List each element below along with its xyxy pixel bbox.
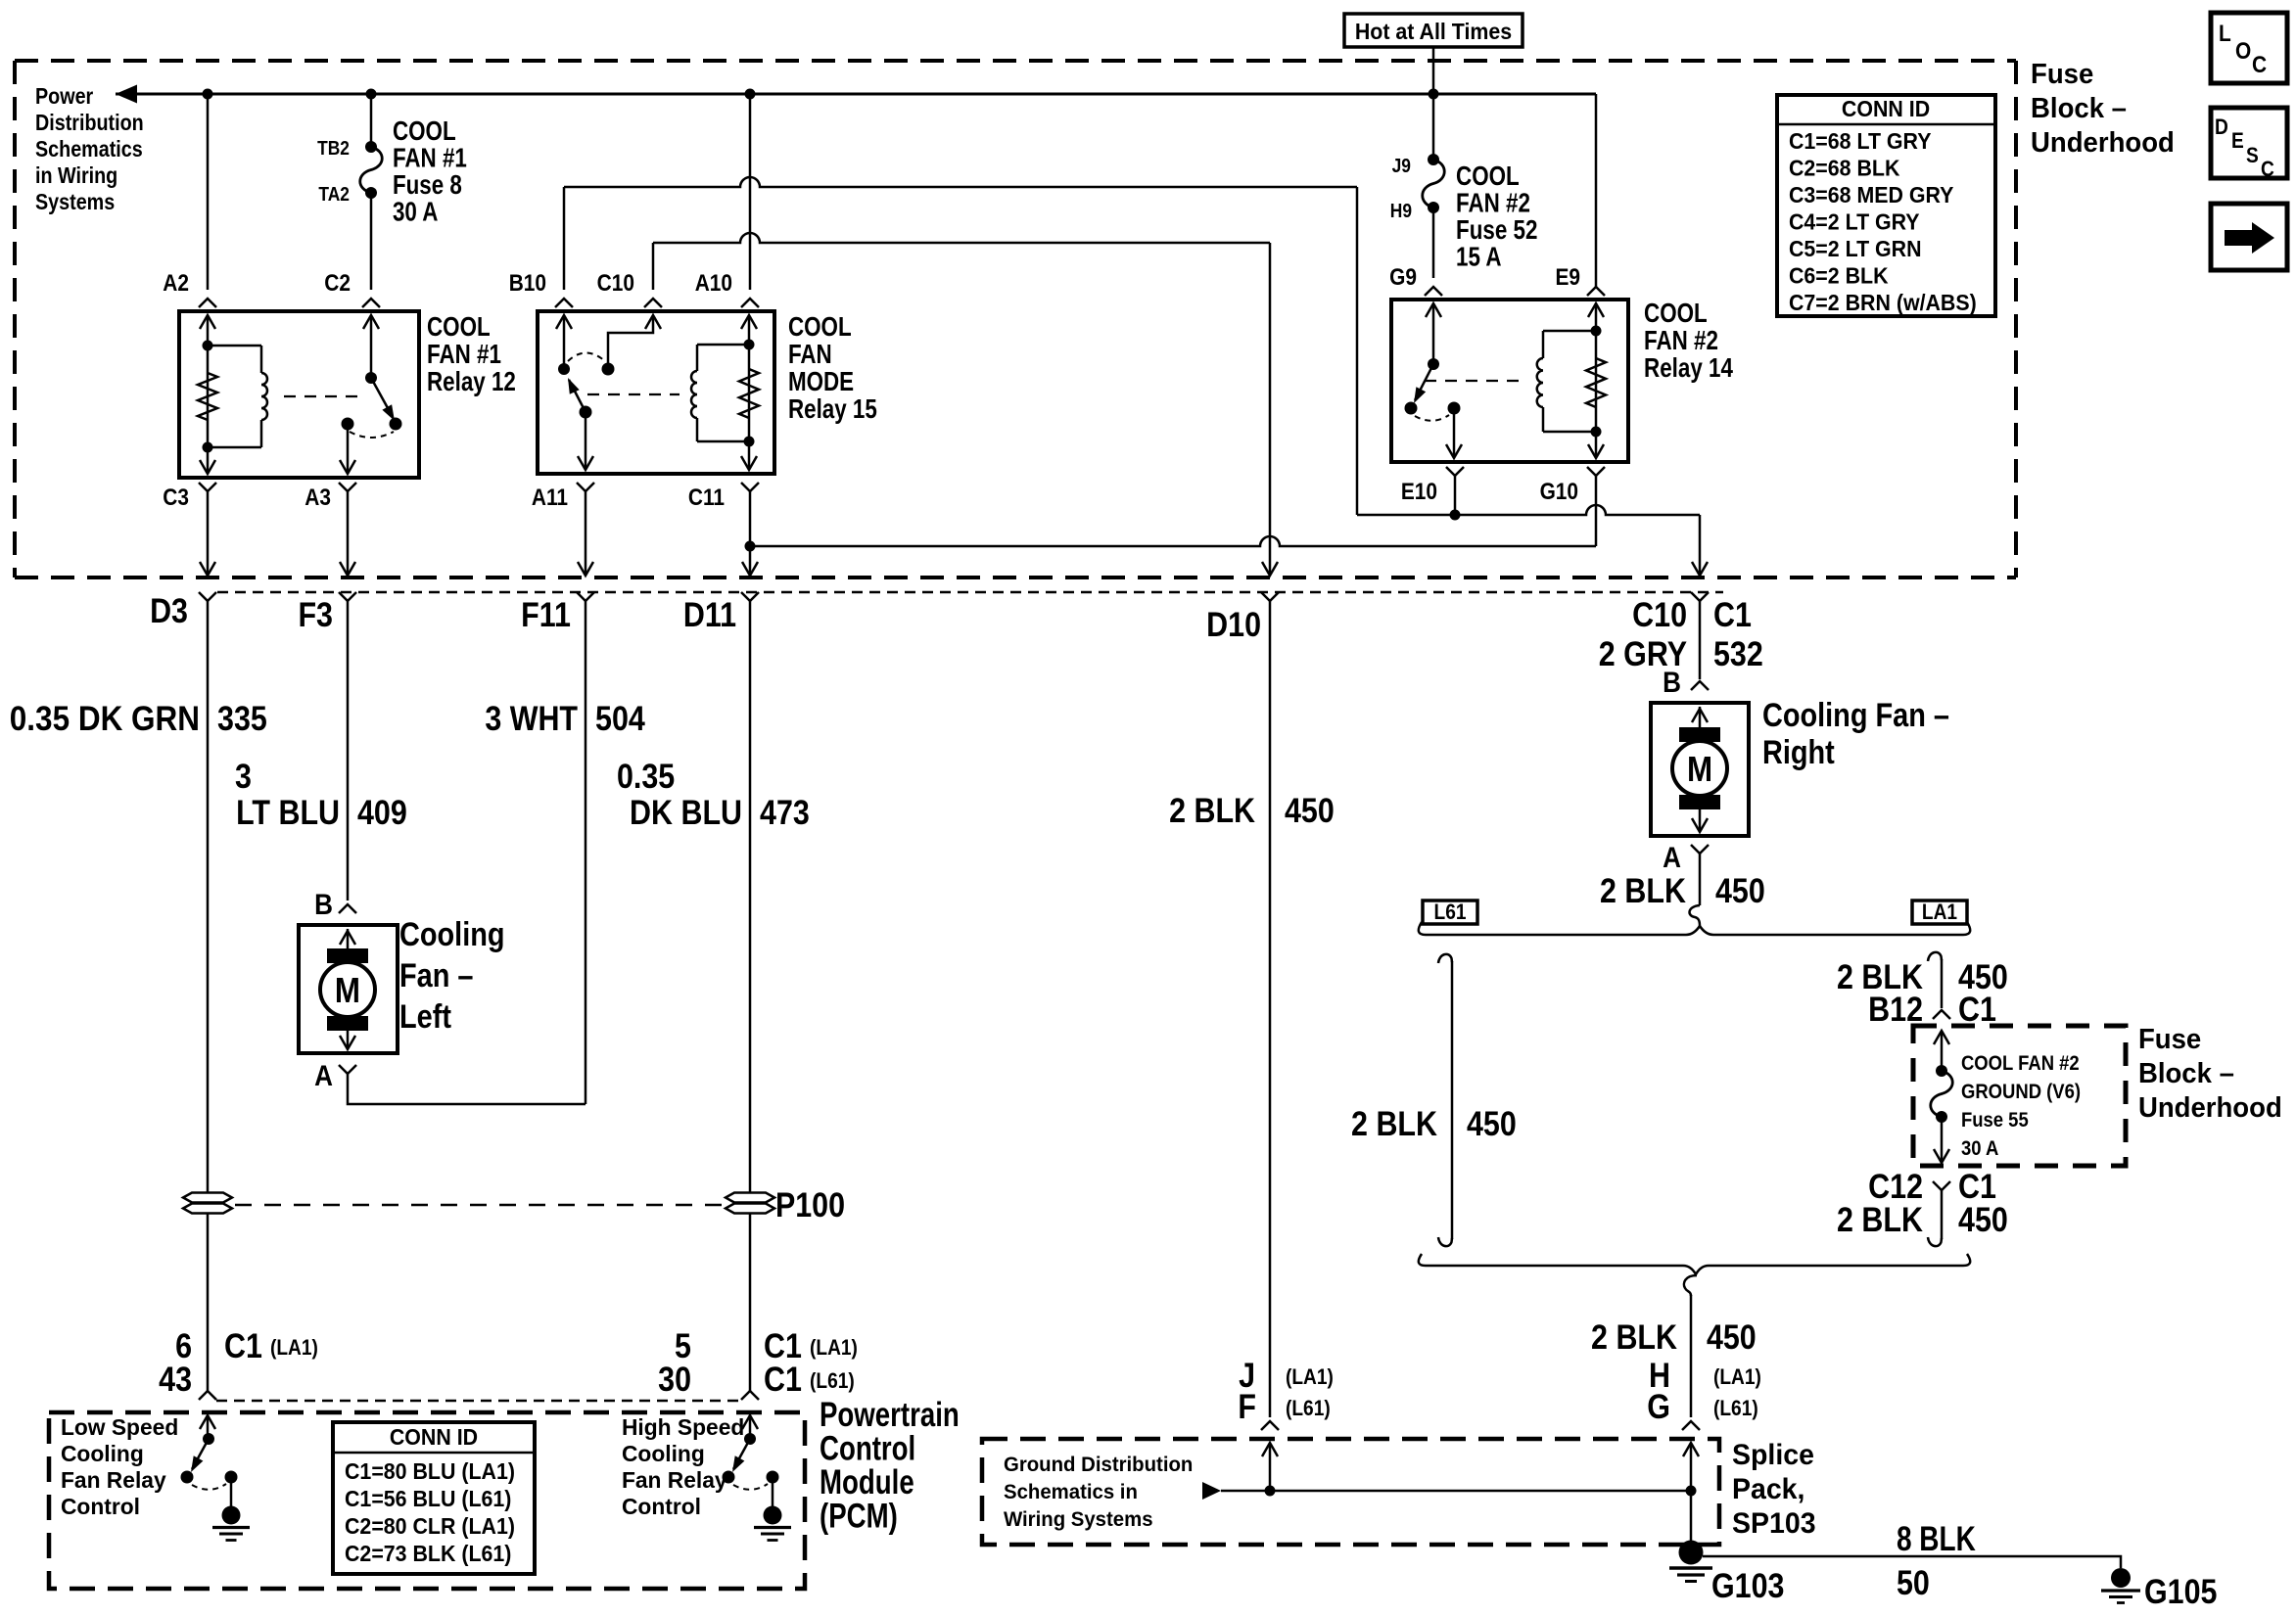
svg-text:C2: C2 [324,270,351,297]
pin A11 connector [577,483,594,491]
arrow glyph (next page) [2225,230,2252,246]
svg-text:TB2: TB2 [317,137,350,159]
pin E9 connector [1587,287,1605,296]
svg-text:F11: F11 [521,595,571,633]
svg-text:E: E [2231,129,2244,154]
svg-text:30 A: 30 A [393,197,438,227]
svg-text:Control: Control [622,1494,701,1519]
svg-text:Low Speed: Low Speed [61,1414,178,1440]
relay K15 C10 jog wire [608,315,653,369]
pin B12 connector [1933,1010,1950,1019]
wire: power bus corner down to E9 [1595,94,1598,287]
svg-text:Distribution: Distribution [35,109,144,135]
svg-text:Fuse 8: Fuse 8 [393,170,462,201]
svg-text:in Wiring: in Wiring [35,162,117,188]
wire: fuse52 feed [1432,94,1435,160]
junction C11/D11 tee [745,541,756,552]
svg-text:Splice: Splice [1732,1439,1814,1471]
relay K15 junction bottom [744,437,755,447]
svg-text:B: B [1663,666,1681,698]
svg-text:C3: C3 [163,485,189,511]
PCM CONN ID box [333,1422,535,1574]
relay K12 junction top [203,341,213,351]
pin F11 connector [577,592,594,601]
svg-text:A10: A10 [695,270,732,297]
svg-text:450: 450 [1467,1104,1517,1142]
svg-text:COOL: COOL [427,312,491,343]
svg-text:30: 30 [658,1360,691,1398]
svg-text:G: G [1647,1387,1670,1425]
svg-text:450: 450 [1958,1200,2008,1238]
svg-text:J9: J9 [1392,155,1411,176]
svg-text:3: 3 [235,757,252,795]
wire B10 riser [563,187,566,290]
svg-text:(L61): (L61) [1286,1397,1331,1421]
svg-text:Relay 14: Relay 14 [1644,353,1733,384]
svg-text:FAN #2: FAN #2 [1644,326,1718,356]
svg-text:(L61): (L61) [810,1369,855,1394]
relay K12 control dashed link [284,395,360,397]
pin H/G connector [1682,1421,1700,1430]
svg-text:L61: L61 [1434,901,1467,925]
LOC reference box [2211,13,2287,83]
motor M1 circle (Cooling Fan - Left) [320,962,375,1017]
motor M2 circle (Cooling Fan - Right) [1672,741,1727,796]
wire 473 below P100 [749,1214,752,1391]
svg-text:GROUND (V6): GROUND (V6) [1961,1081,2081,1103]
svg-text:A11: A11 [532,485,568,511]
relay K12 coil pin line w/ arrows [207,315,210,474]
svg-text:532: 532 [1713,634,1763,672]
resistor inside K15 [739,369,759,418]
svg-text:(PCM): (PCM) [820,1496,898,1535]
relay K15 box (COOL FAN MODE Relay 15) [538,311,774,474]
svg-text:FAN #1: FAN #1 [427,340,501,370]
svg-text:2 BLK: 2 BLK [1591,1317,1677,1356]
svg-text:A: A [1663,841,1681,873]
svg-text:Cooling Fan –: Cooling Fan – [1762,696,1949,734]
arrow C1 feed into connector [1692,562,1708,576]
svg-text:Cooling: Cooling [61,1441,144,1466]
svg-text:2 BLK: 2 BLK [1351,1104,1437,1142]
pin C10/C1 connector (right fan feed) [1691,592,1709,601]
pin F3 connector [339,592,356,601]
svg-text:Fuse: Fuse [2138,1022,2201,1054]
pin A10 connector [741,299,759,307]
svg-text:C10: C10 [1632,595,1687,633]
svg-text:G103: G103 [1711,1566,1784,1604]
coil inside K14 [1543,330,1596,333]
relay K14 switch common from G9 [1432,303,1435,364]
pin 30 connector [741,1391,759,1400]
wire C1 feed drop [1699,515,1702,574]
low speed dashed throw arc [192,1484,226,1490]
svg-text:Right: Right [1762,733,1835,771]
svg-text:A3: A3 [305,485,331,511]
dashed link between P100 halves [235,1204,723,1207]
svg-text:30 A: 30 A [1961,1137,1998,1160]
svg-text:Underhood: Underhood [2031,125,2175,158]
wire LA1 branch to B12 [1941,959,1944,1008]
relay K14 output to E10 [1453,408,1456,458]
svg-text:COOL: COOL [788,312,852,343]
svg-text:CONN ID: CONN ID [1842,96,1930,121]
svg-text:50: 50 [1897,1563,1930,1601]
pin A3 connector [339,483,356,491]
relay K15 coil pin line w/ arrows [748,315,751,470]
wire: fuse8 to C2 pin [370,193,373,290]
wire 50 8BLK to G105 [1703,1556,2121,1568]
relay K14 control dashed link [1425,380,1523,382]
pin E10 connector [1446,467,1464,476]
pin A2 connector [199,299,216,307]
svg-text:Fan –: Fan – [399,956,473,994]
pin C10 connector [644,299,662,307]
svg-text:Wiring Systems: Wiring Systems [1004,1508,1153,1531]
wire A10 column from power bus [749,94,752,290]
svg-text:C: C [2261,158,2274,182]
label box L61 [1423,901,1477,924]
LA1 branch bottom hook [1928,1237,1942,1246]
svg-text:Fan Relay: Fan Relay [622,1467,727,1493]
LA1 branch top hook [1928,952,1942,961]
arrow D3 into connector [207,491,210,574]
svg-text:473: 473 [760,793,810,831]
relay K14 stationary contact [1448,402,1461,415]
high speed stationary contact [767,1471,779,1484]
fuse55 entry arrow [1941,1031,1944,1071]
wire bus from B10 route to C1 (hop at G10) [1357,505,1700,515]
inline connector P100 (D3 wire) [183,1193,232,1203]
splice SP103 node [1679,1541,1704,1565]
L61 branch top hook [1438,954,1452,963]
svg-text:A2: A2 [163,270,189,297]
pin D10 connector [1261,592,1279,601]
high speed ground lead [772,1477,774,1507]
svg-text:CONN ID: CONN ID [390,1424,478,1450]
svg-text:Power: Power [35,82,94,109]
svg-text:D11: D11 [683,595,736,633]
svg-text:Schematics: Schematics [35,135,143,162]
svg-text:M: M [1687,750,1712,790]
svg-text:Relay 15: Relay 15 [788,394,877,425]
relay K15 dashed throw arc [568,353,605,362]
svg-text:3 WHT: 3 WHT [485,699,578,737]
fuse F52 (COOL FAN #2 Fuse 52 15A) [1428,154,1439,165]
svg-text:(LA1): (LA1) [1713,1365,1761,1390]
relay K14 box (COOL FAN #2 Relay 14) [1391,300,1628,462]
relay K12 switch pivot [365,372,377,384]
wire C10 riser [652,243,655,290]
low speed input arrow [207,1415,210,1439]
svg-text:15 A: 15 A [1456,242,1501,272]
svg-text:Block –: Block – [2031,91,2127,123]
svg-text:C1: C1 [224,1326,262,1364]
wire: main power bus [116,93,1596,96]
svg-text:Fuse 52: Fuse 52 [1456,215,1537,246]
svg-text:43: 43 [159,1360,192,1398]
svg-text:F3: F3 [298,595,333,633]
svg-text:A: A [314,1059,333,1091]
relay K15 switch pivot [558,363,570,375]
svg-text:B12: B12 [1868,990,1923,1028]
pin 43 connector [199,1391,216,1400]
svg-text:LA1: LA1 [1922,901,1957,925]
pin B10 connector [555,299,573,307]
relay K14 dashed throw arc [1415,415,1449,421]
relay K15 switch common from B10 [563,315,566,369]
svg-text:L: L [2219,21,2231,47]
ground G103 symbol [1669,1566,1712,1570]
ground (high speed, PCM internal) [764,1506,782,1525]
relay K15 moving contact [580,406,592,419]
svg-text:TA2: TA2 [318,183,350,205]
svg-text:C3=68 MED GRY: C3=68 MED GRY [1789,182,1954,208]
relay K12 switch arm [371,378,393,417]
wire 473 DK BLU (D11 to P100) [749,601,752,1192]
pin D11 connector [741,592,759,601]
connector face dashed line (fuse block bottom) [217,591,1723,594]
pin B connector (left fan) [339,904,356,913]
wire bus C11 to G10 (hop at D10) [750,536,1596,546]
wire 450 BLK (D10 to PCM J/F) [1269,601,1272,1417]
inline connector P100 (D11 wire) [726,1193,774,1203]
ground (low speed, PCM internal) [222,1506,241,1525]
svg-text:G105: G105 [2144,1572,2217,1610]
svg-text:409: 409 [357,793,407,831]
cooling fan left feed line [347,929,350,1049]
svg-text:Schematics in: Schematics in [1004,1481,1138,1503]
svg-text:G9: G9 [1389,264,1417,291]
pin B connector (right fan) [1691,681,1709,690]
arrow J/F into ground box [1269,1443,1272,1491]
svg-text:COOL: COOL [1644,299,1708,329]
relay K14 junction top [1591,326,1602,337]
fuse block underhood boundary (dashed box) [15,61,2016,577]
relay K14 coil pin line w/ arrows [1595,303,1598,458]
coil inside K15 [697,344,749,346]
relay K12 box (COOL FAN #1 Relay 12) [179,311,419,478]
pin C12 connector [1933,1181,1950,1190]
svg-text:FAN #1: FAN #1 [393,143,467,173]
PCM boundary (dashed box) [49,1412,805,1589]
connector face dashed line (PCM top) [216,1400,741,1403]
L61 branch bottom hook [1438,1237,1452,1246]
svg-text:FAN #2: FAN #2 [1456,188,1530,218]
DESC reference box [2211,108,2287,178]
pin C3 connector [199,483,216,491]
high speed dashed throw arc [733,1484,768,1490]
svg-text:335: 335 [217,699,267,737]
label box LA1 [1912,901,1967,924]
CONN ID divider (fuse block) [1777,123,1995,126]
low speed switch pivot [203,1433,214,1445]
svg-text:MODE: MODE [788,367,854,397]
cooling fan left brush upper [327,948,368,963]
wire E10 stub [1454,476,1457,515]
wire hot-at-all-times drop to power bus [1432,47,1435,94]
svg-text:Fan Relay: Fan Relay [61,1467,166,1493]
wire fan right A down [1699,854,1702,905]
pin C11 connector [741,483,759,491]
CONN ID box (fuse block) [1777,95,1995,316]
fuse F8 (COOL FAN #1 Fuse 8 30A) [365,141,377,153]
svg-text:504: 504 [595,699,645,737]
svg-text:H9: H9 [1390,200,1412,221]
arrow splice into ground box [1690,1443,1693,1491]
svg-text:C2=68 BLK: C2=68 BLK [1789,156,1899,181]
arrow reference box [2211,204,2287,270]
low speed ground lead [230,1477,233,1507]
svg-text:(LA1): (LA1) [270,1336,318,1361]
pin A connector (left fan) [339,1065,356,1074]
pin G9 connector [1425,287,1442,296]
PCM CONN ID divider [333,1452,535,1455]
svg-text:F: F [1238,1387,1256,1425]
relay K15 C10 contact [602,363,615,376]
coil inside K12 [208,345,261,347]
svg-text:SP103: SP103 [1732,1507,1816,1540]
svg-text:2 BLK: 2 BLK [1837,1200,1923,1238]
svg-text:E9: E9 [1555,264,1580,291]
junction A2 on power bus [203,89,213,100]
lower brace (engine variants) [1419,1254,1970,1274]
pin G10 connector [1587,467,1605,476]
svg-text:B10: B10 [509,270,546,297]
svg-text:Cooling: Cooling [399,915,505,953]
svg-text:Block –: Block – [2138,1056,2234,1088]
relay K12 dashed throw arc [350,432,394,438]
wire C1 to fan right B [1699,601,1702,679]
wire C12 down [1941,1190,1944,1239]
svg-text:Left: Left [399,997,451,1036]
svg-text:0.35 DK GRN: 0.35 DK GRN [10,701,200,739]
svg-text:C10: C10 [597,270,634,297]
svg-text:Ground Distribution: Ground Distribution [1004,1454,1193,1476]
svg-text:B: B [314,888,333,920]
svg-text:C7=2 BRN (w/ABS): C7=2 BRN (w/ABS) [1789,290,1977,315]
svg-text:C1: C1 [1713,595,1752,633]
cooling fan right motor box [1651,703,1749,836]
svg-text:Control: Control [61,1494,140,1519]
svg-text:C1: C1 [764,1360,802,1398]
svg-text:LT BLU: LT BLU [236,793,340,831]
arrow F11 into connector [585,491,587,574]
relay K15 output to A11 [585,412,587,470]
relay K14 switch arm [1415,364,1433,400]
wire fan-left A to F11 leg [348,1074,586,1104]
svg-text:Cooling: Cooling [622,1441,705,1466]
svg-text:C1: C1 [1958,990,1996,1028]
pin A connector (right fan) [1691,845,1709,854]
relay K12 switch common from C2 [370,315,373,378]
svg-text:G10: G10 [1540,479,1578,505]
svg-text:C6=2 BLK: C6=2 BLK [1789,263,1889,289]
svg-text:Relay 12: Relay 12 [427,367,516,397]
svg-text:High Speed: High Speed [622,1414,744,1440]
pin C2 connector [362,299,380,307]
svg-text:C: C [2252,52,2267,78]
wire A2 column [207,94,210,290]
ground G105 symbol [2101,1589,2140,1592]
svg-text:(LA1): (LA1) [810,1336,858,1361]
svg-text:2 BLK: 2 BLK [1169,791,1255,829]
wire D10 column upper [1269,243,1272,574]
svg-text:C5=2 LT GRN: C5=2 LT GRN [1789,236,1922,261]
svg-text:C2=80 CLR (LA1): C2=80 CLR (LA1) [345,1513,515,1539]
svg-text:D: D [2215,115,2228,140]
cooling fan left brush lower [327,1016,368,1031]
pin D3 connector [199,592,216,601]
cooling fan right brush lower [1679,795,1720,809]
wire 504 WHT (F11 leg) [585,601,587,1104]
ground G105 node [2111,1568,2131,1588]
wire L61 branch 2 BLK 450 [1451,961,1454,1239]
wire 335 below P100 [207,1214,210,1391]
relay K12 junction bottom [203,442,213,453]
upper brace (engine variants) [1419,922,1970,935]
svg-text:M: M [335,971,360,1011]
relay K14 junction bottom [1591,427,1602,438]
svg-text:C11: C11 [688,485,725,511]
svg-text:P100: P100 [775,1185,845,1224]
junction C2 fuse tap on power bus [366,89,377,100]
fuse F55 (COOL FAN #2 GROUND (V6) Fuse 55 30A) [1936,1065,1947,1077]
cooling fan right brush upper [1679,727,1720,742]
arrow: power distribution (left) [116,85,137,104]
wire splice drop [1690,1491,1693,1547]
svg-text:S: S [2246,144,2259,168]
pin J/F connector [1261,1421,1279,1430]
svg-text:(L61): (L61) [1713,1397,1758,1421]
low speed stationary contact [225,1471,238,1484]
svg-text:DK BLU: DK BLU [630,793,742,831]
arrow D10 into connector [1262,562,1278,576]
svg-text:C4=2 LT GRY: C4=2 LT GRY [1789,209,1920,235]
high speed switch arm [733,1439,750,1469]
curl below lower brace [1684,1275,1697,1296]
wire fuse52 to G9 [1432,208,1435,278]
cooling fan right feed line [1699,707,1702,832]
relay K15 switch arm [569,380,586,412]
wire: fuse8 feed [370,94,373,147]
cooling fan left motor box [299,925,398,1053]
arrow D11 into connector [742,562,758,576]
high speed moving contact [723,1471,735,1484]
wire C11 stub [749,491,752,574]
relay K12 output to A3 [347,424,350,474]
fuse55 exit arrow [1941,1117,1944,1161]
junction A10 tap on power bus [745,89,756,100]
low speed switch arm [192,1439,209,1469]
node: Hot at All Times box [1344,14,1523,47]
svg-text:C1=80 BLU (LA1): C1=80 BLU (LA1) [345,1458,515,1484]
relay K15 control dashed link [587,393,679,395]
svg-text:COOL: COOL [1456,162,1520,192]
svg-text:Fuse: Fuse [2031,57,2093,89]
svg-text:450: 450 [1285,791,1335,829]
svg-text:450: 450 [1707,1317,1757,1356]
junction J/F on ground bus [1265,1486,1276,1497]
svg-text:O: O [2235,38,2251,65]
wire B10 horizontal to right (hop at A10) [564,177,1357,187]
svg-text:D10: D10 [1206,605,1261,643]
junction E10 on bus [1450,510,1461,521]
svg-text:Fuse 55: Fuse 55 [1961,1109,2029,1132]
relay K14 switch pivot [1428,358,1439,370]
junction splice on ground bus [1686,1486,1697,1497]
high speed switch pivot [744,1433,756,1445]
